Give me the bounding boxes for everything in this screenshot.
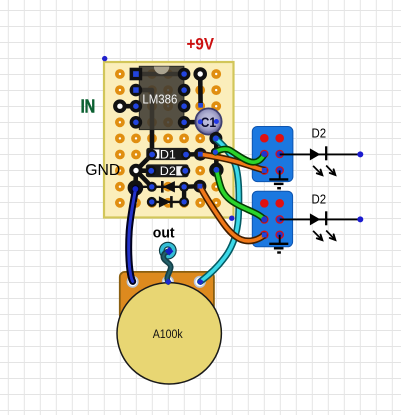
connector J1 (upper header) <box>252 127 293 182</box>
ground (J1) <box>269 170 288 188</box>
diode D3 lead line <box>139 186 184 188</box>
wire pin2 to D1 (under IC) <box>136 90 152 154</box>
potentiometer R1 knob A100k <box>117 283 221 384</box>
node board corner (bottom-right) <box>229 216 234 221</box>
connector J2 (lower header) <box>252 191 292 247</box>
LED D2 (lower) <box>310 211 335 240</box>
wire C1 right leg down to green pad <box>214 122 219 170</box>
pad (cyan wire) <box>209 132 222 145</box>
wire teal out loop <box>162 245 174 286</box>
svg-text:D2: D2 <box>160 164 176 178</box>
wire J2 to LED D2 <box>280 218 360 220</box>
pad (blue wire start) <box>128 180 144 196</box>
wire orange 2 (to J2) <box>200 186 267 241</box>
svg-text:LM386: LM386 <box>142 91 177 106</box>
node board corner (top-left) <box>102 56 107 61</box>
node IN pad <box>113 99 127 113</box>
node +9V pad <box>193 67 207 81</box>
svg-text:out: out <box>153 224 175 241</box>
wire cyan (to pot right lug) <box>197 139 239 285</box>
ground (J2) <box>269 235 288 253</box>
svg-text:D2: D2 <box>312 126 327 141</box>
diode D2 body <box>146 164 189 178</box>
svg-text:D1: D1 <box>160 147 176 161</box>
pad (green wire 1) <box>211 148 220 157</box>
perfboard holes <box>117 71 219 206</box>
op-amp U1 LM386 body <box>139 66 184 129</box>
perfboard <box>104 62 234 218</box>
wire J1 to LED D2 <box>280 153 360 155</box>
node (upper LED end) <box>357 151 363 157</box>
diode D4 lead line <box>152 201 184 203</box>
diode D4 symbol (pointing right) <box>159 196 172 208</box>
pad (green wire 2) <box>209 163 223 177</box>
svg-text:+9V: +9V <box>187 35 215 54</box>
wire diode row to orange pad 2 and down <box>184 186 200 202</box>
pad (orange wire 1) <box>194 148 207 161</box>
potentiometer R1 body <box>120 272 214 320</box>
svg-text:A100k: A100k <box>153 329 183 341</box>
wire green 2 (to J2) <box>216 170 267 222</box>
IC pin pads <box>130 68 191 129</box>
svg-text:IN: IN <box>81 97 96 117</box>
wire pin5 to C1 <box>184 120 200 125</box>
blue dots on pads <box>133 136 220 205</box>
wire +9V pad down <box>198 74 203 108</box>
node GND pad + star wires <box>129 155 152 188</box>
diode D3 symbol (pointing left) <box>162 181 175 193</box>
capacitor C1 <box>195 108 221 134</box>
diode D1 body <box>146 147 188 161</box>
node (lower LED end) <box>357 216 363 222</box>
pad (diode line ends) <box>146 150 191 207</box>
wire blue (to pot left lug) <box>129 188 136 281</box>
svg-text:D2: D2 <box>312 191 327 206</box>
wire pin1-pin8 (under IC) <box>136 72 184 77</box>
LED D2 (upper) <box>310 146 335 175</box>
svg-text:GND: GND <box>85 162 120 179</box>
wire green 1 (to J1) <box>215 149 267 162</box>
wire orange 1 (to J1) <box>201 154 267 173</box>
wire IN pad to pin3 <box>120 104 136 109</box>
pad (orange wire 2) <box>193 180 206 193</box>
wire D1 right to orange pad <box>185 152 200 157</box>
